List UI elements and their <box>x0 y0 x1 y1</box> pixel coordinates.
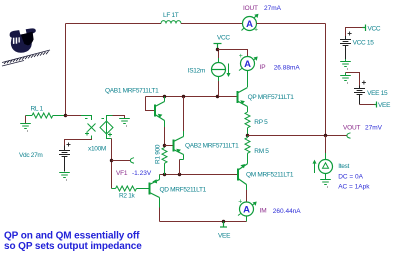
ground (VCC) <box>340 59 351 67</box>
svg-text:VCC: VCC <box>368 26 381 33</box>
svg-text:VEE: VEE <box>218 233 231 240</box>
svg-text:Itest: Itest <box>338 163 349 170</box>
svg-text:LF 1T: LF 1T <box>163 12 179 19</box>
svg-text:QAB1 MRF5711LT1: QAB1 MRF5711LT1 <box>105 88 159 95</box>
node QAB2 emitter <box>178 173 181 176</box>
svg-text:+: + <box>254 27 258 34</box>
inductor LF <box>161 21 181 24</box>
wire QD collector down to bottom rail <box>159 208 161 222</box>
svg-text:RP 5: RP 5 <box>254 119 268 126</box>
svg-text:A: A <box>246 19 253 30</box>
wire RL1 left to ground <box>25 116 27 124</box>
svg-text:260.44nA: 260.44nA <box>273 208 301 215</box>
wire QAB2 collector up to rail <box>183 131 185 137</box>
bias rail <box>160 174 238 176</box>
node VOUT left <box>246 134 249 137</box>
svg-text:27mV: 27mV <box>365 125 383 132</box>
svg-text:AC = 1Apk: AC = 1Apk <box>338 184 370 191</box>
node R1 bottom <box>163 173 166 176</box>
tie VCC right <box>363 25 366 32</box>
svg-text:A: A <box>244 59 251 70</box>
svg-text:Vdc 27m: Vdc 27m <box>19 152 43 159</box>
svg-text:QP MRF5711LT1: QP MRF5711LT1 <box>248 94 295 101</box>
svg-text:VF1: VF1 <box>116 170 128 177</box>
resistor R1 <box>164 146 166 148</box>
main bias top rail <box>146 96 238 98</box>
ground (VEE top) <box>340 73 351 81</box>
svg-text:-1.23V: -1.23V <box>132 170 152 177</box>
svg-text:QAB2 MRF5711LT1: QAB2 MRF5711LT1 <box>185 143 239 150</box>
svg-text:IM: IM <box>260 208 267 215</box>
resistor RM <box>247 136 249 138</box>
svg-text:+: + <box>238 199 242 206</box>
svg-text:DC = 0A: DC = 0A <box>338 174 363 181</box>
wire IM bottom stub <box>246 216 248 222</box>
ground (F1) <box>119 119 130 124</box>
node QAB2 collector <box>182 95 185 98</box>
wire RL1 junction to X sensor <box>66 115 82 117</box>
open connector VOUT <box>347 133 351 139</box>
wire diamond bottom down to R2 corner <box>111 139 113 189</box>
wire top horizontal left of LF <box>66 23 162 25</box>
battery VEE <box>354 81 366 105</box>
node VCC <box>216 48 219 51</box>
open connector VF1 <box>130 158 134 164</box>
svg-text:IS12m: IS12m <box>188 67 205 74</box>
transistor QM <box>238 164 248 190</box>
transistor QD <box>150 175 160 208</box>
X current sensor of F source <box>81 116 96 139</box>
svg-text:27mA: 27mA <box>264 5 282 12</box>
svg-text:QM MRF5211LT1: QM MRF5211LT1 <box>246 172 294 179</box>
resistor RP <box>245 112 250 128</box>
wire right vertical <box>325 24 327 136</box>
svg-text:+: + <box>239 53 243 60</box>
wire LF to IOUT ammeter <box>181 23 243 25</box>
bottom rail <box>160 221 247 223</box>
logo <box>2 28 50 66</box>
tie VEE right <box>375 102 377 108</box>
wire VCC node to IP ammeter <box>218 50 248 57</box>
ammeter IP <box>239 53 258 71</box>
wire VEE battery to tie <box>360 104 375 106</box>
transistor QP <box>238 88 248 113</box>
source Itest <box>325 136 327 154</box>
node QAB1 collector <box>163 95 166 98</box>
wire IS top to VCC node <box>218 50 220 59</box>
wire diamond top to ground <box>113 116 125 119</box>
wire IP to QP collector <box>247 71 249 88</box>
ammeter IOUT <box>242 14 259 34</box>
svg-text:QD MRF5211LT1: QD MRF5211LT1 <box>160 187 207 194</box>
svg-text:VCC 15: VCC 15 <box>353 39 375 46</box>
svg-text:26.88mA: 26.88mA <box>274 64 301 71</box>
wire left vertical <box>65 24 67 116</box>
wire VF1 stub right <box>112 160 131 162</box>
ammeter IM <box>238 199 257 217</box>
wire ground to VEE battery <box>346 73 360 86</box>
transistor QAB2 <box>174 137 184 160</box>
svg-text:A: A <box>243 205 250 216</box>
svg-text:R2 1k: R2 1k <box>119 193 136 200</box>
svg-text:IOUT: IOUT <box>243 5 258 12</box>
ground (Vdc) <box>59 173 70 178</box>
wire IS bottom to rail <box>218 81 220 97</box>
svg-text:VEE: VEE <box>378 102 391 109</box>
wire IOUT to right corner <box>257 23 326 25</box>
svg-text:RM 5: RM 5 <box>254 148 269 155</box>
battery VCC <box>346 28 363 37</box>
svg-text:RL 1: RL 1 <box>31 106 44 113</box>
node junction RL1 <box>64 114 67 117</box>
ground (Itest) <box>320 180 331 185</box>
svg-text:IP: IP <box>260 64 266 71</box>
wire QAB2 emitter down to rail <box>179 160 181 175</box>
wire QAB1 emitter to node <box>164 127 166 146</box>
svg-text:VCC: VCC <box>217 35 230 42</box>
wire X to Vdc battery <box>65 139 92 146</box>
wire QM collector to IM ammeter <box>246 190 248 202</box>
node VF1 <box>110 159 113 162</box>
transistor QAB1 <box>146 97 155 111</box>
dependent source F1 diamond <box>100 116 113 139</box>
ground (RL1) <box>20 124 31 129</box>
svg-text:R1 900: R1 900 <box>155 144 162 164</box>
tie VEE bottom <box>222 220 225 223</box>
battery Vdc <box>59 143 71 172</box>
resistor R2 <box>112 188 116 190</box>
wire node to QAB2 base <box>165 145 174 147</box>
node QAB1e/QAB2b/R1 <box>163 144 166 147</box>
svg-text:x100M: x100M <box>88 146 106 153</box>
svg-text:so QP sets output impedance: so QP sets output impedance <box>4 241 142 252</box>
node IS bottom <box>216 95 219 98</box>
svg-text:VOUT: VOUT <box>343 125 360 132</box>
node VOUT <box>324 134 327 137</box>
VOUT rail <box>248 135 348 137</box>
svg-text:VEE 15: VEE 15 <box>367 90 388 97</box>
